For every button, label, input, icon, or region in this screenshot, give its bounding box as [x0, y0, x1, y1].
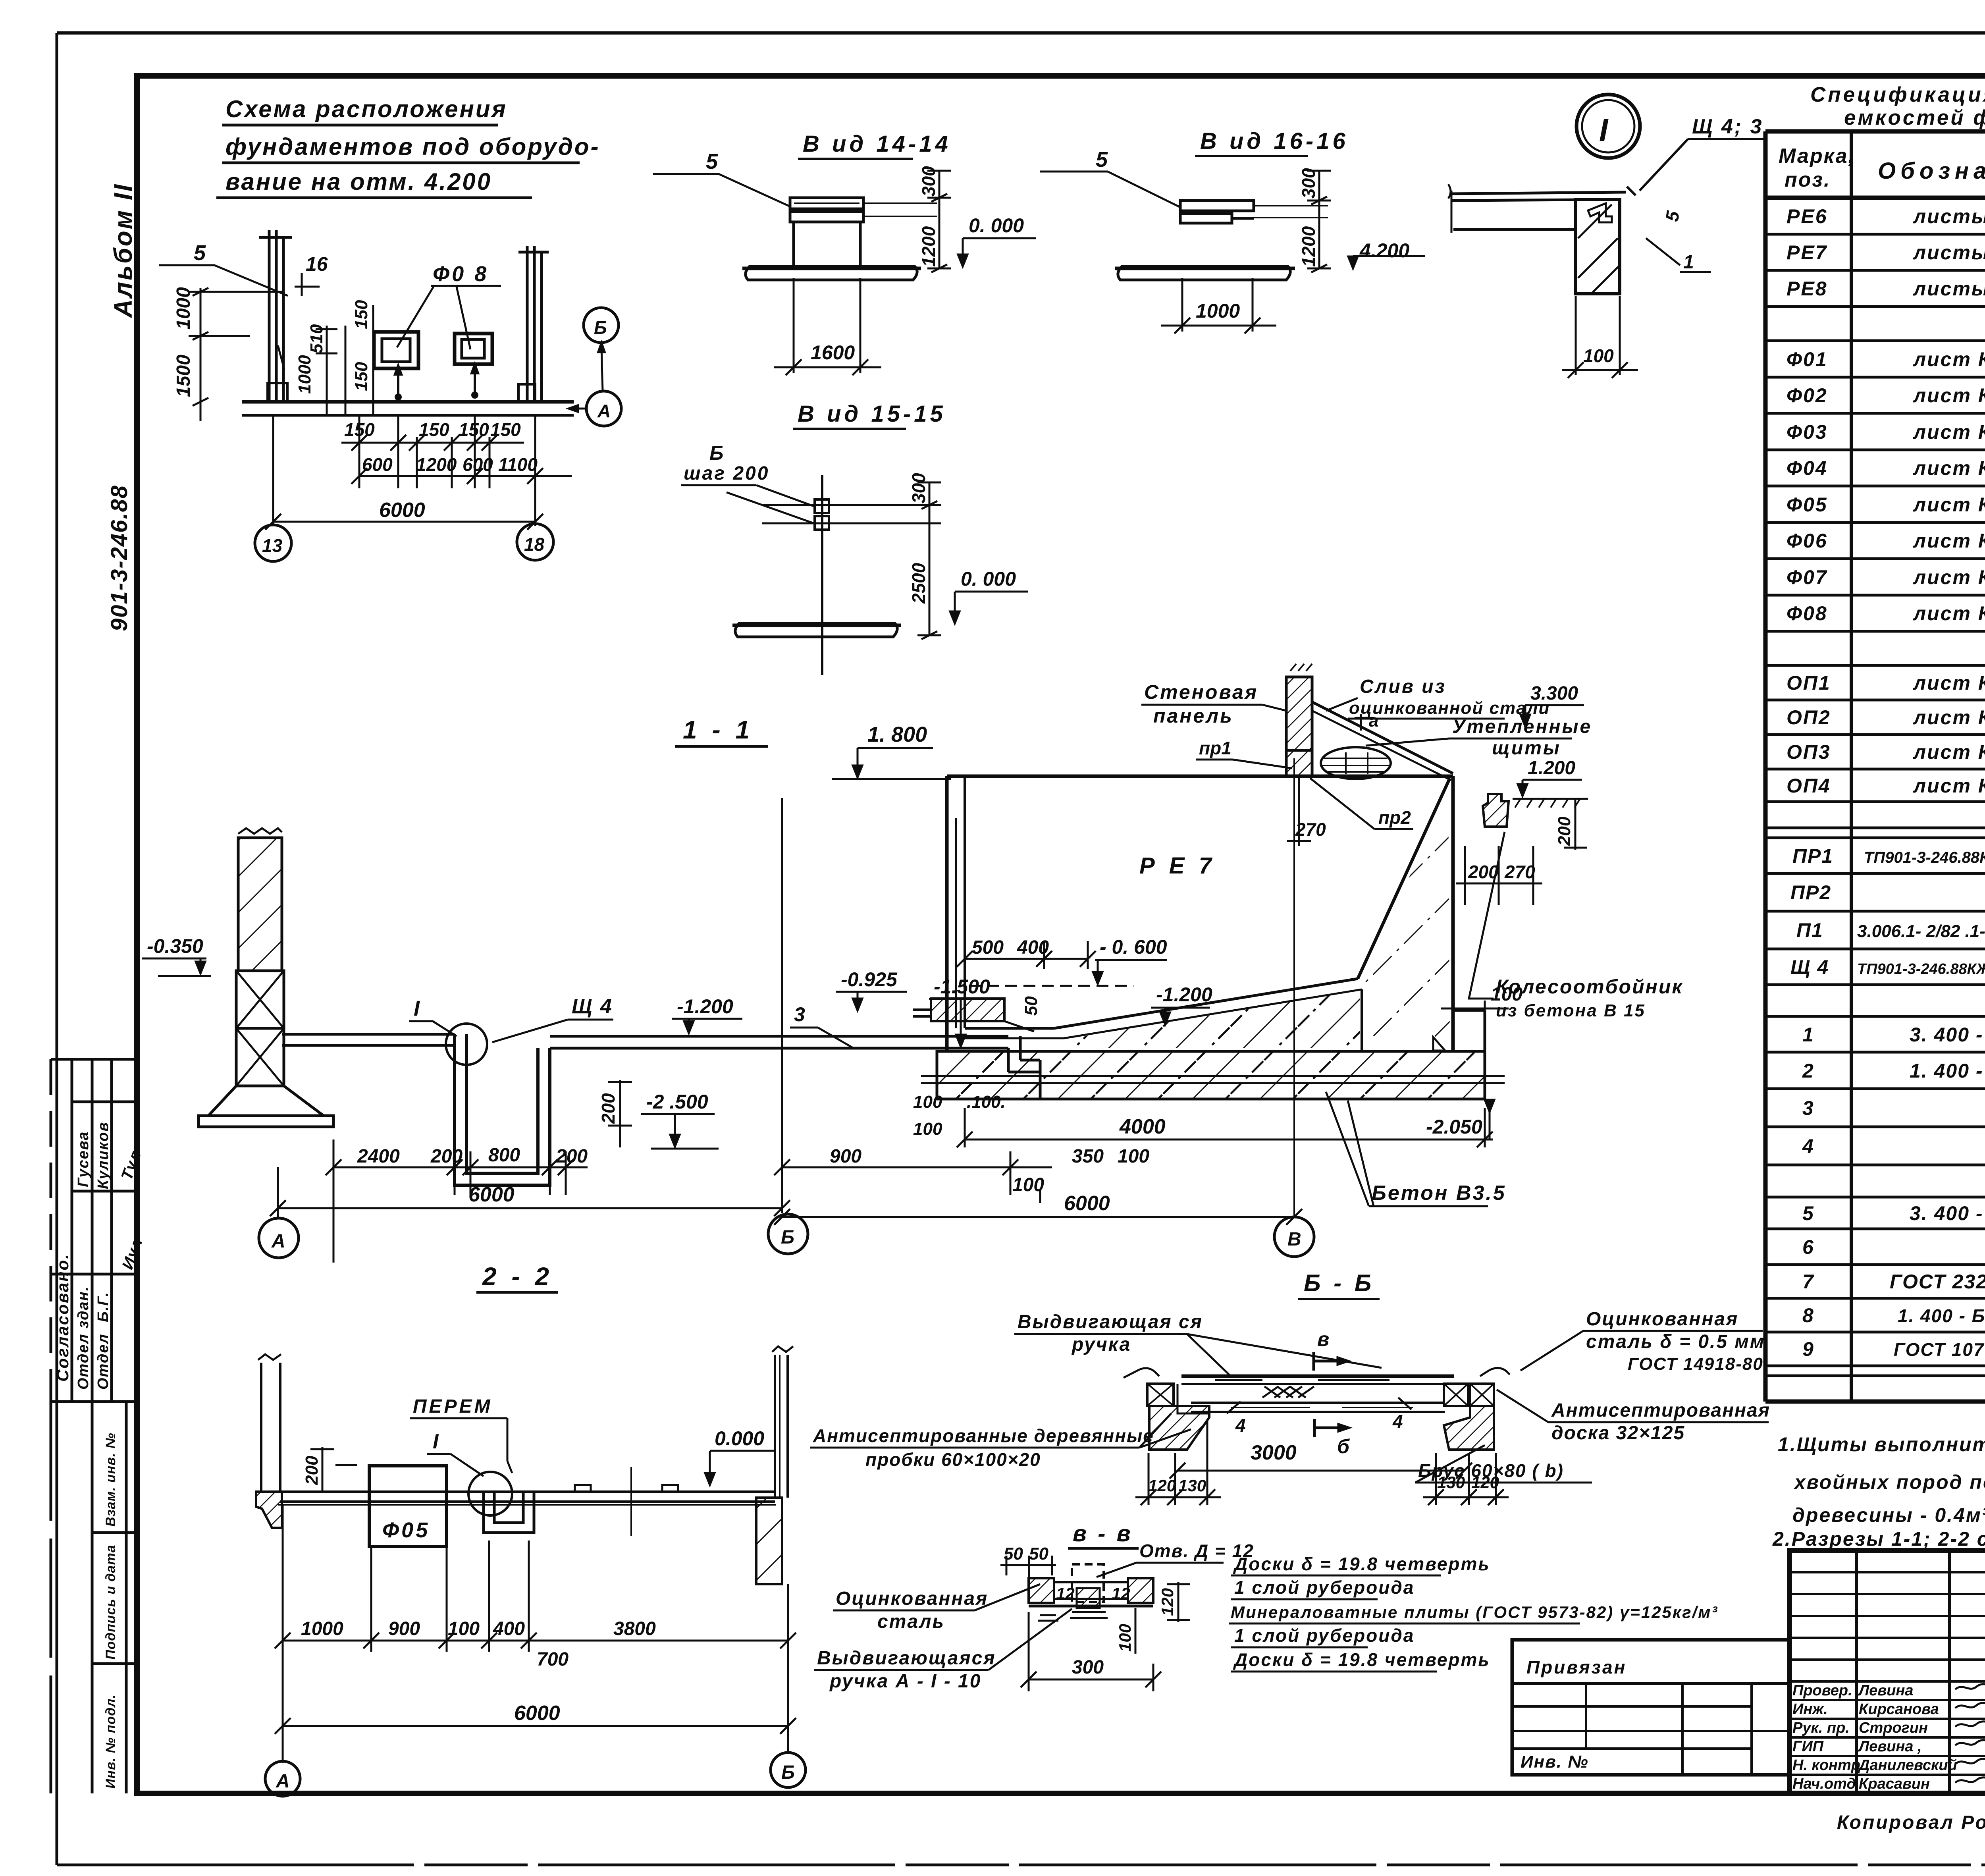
section 2-2 left column: [256, 1354, 282, 1528]
svg-text:6000: 6000: [379, 499, 425, 522]
svg-text:5: 5: [194, 241, 206, 265]
svg-text:ПР2: ПР2: [1790, 881, 1831, 904]
svg-text:Оцинкованная: Оцинкованная: [836, 1588, 988, 1609]
title block grid: [1790, 1550, 1985, 1793]
svg-text:В: В: [1287, 1229, 1301, 1250]
svg-text:б: б: [1337, 1435, 1350, 1458]
plan title: [225, 96, 600, 195]
view B-B left support: [1124, 1368, 1209, 1450]
svg-text:5: 5: [1096, 148, 1108, 172]
left vertical dim 1000 1500: [189, 288, 284, 421]
svg-text:В ид 15-15: В ид 15-15: [798, 401, 946, 427]
svg-text:400: 400: [1017, 937, 1049, 958]
svg-text:ГОСТ 23279-85: ГОСТ 23279-85: [1890, 1271, 1985, 1293]
specification table rows: [1786, 205, 1985, 797]
svg-text:100: 100: [1116, 1624, 1134, 1652]
svg-text:В ид 14-14: В ид 14-14: [803, 131, 951, 157]
specification table header: [1779, 144, 1985, 195]
svg-text:12: 12: [1056, 1584, 1075, 1603]
svg-text:Спецификация к схеме распол: Спецификация к схеме расположения канало…: [1810, 83, 1985, 106]
svg-text:пробки 60×100×20: пробки 60×100×20: [865, 1449, 1041, 1470]
svg-text:- 0. 600: - 0. 600: [1100, 936, 1167, 958]
svg-text:Ф03: Ф03: [1786, 421, 1828, 443]
foundation F05: [369, 1466, 447, 1546]
lean concrete under slope: [1064, 991, 1360, 1048]
dim 6000 B-V: [774, 1209, 1302, 1225]
svg-text:200: 200: [430, 1146, 463, 1167]
svg-text:Оцинкованная: Оцинкованная: [1586, 1309, 1738, 1330]
svg-text:листы КЖ 6: листы КЖ 6: [1913, 278, 1985, 300]
svg-text:Красавин: Красавин: [1859, 1776, 1930, 1792]
svg-text:сталь δ = 0.5 мм: сталь δ = 0.5 мм: [1586, 1331, 1765, 1352]
svg-text:I: I: [414, 997, 420, 1020]
svg-text:ручка: ручка: [1071, 1334, 1131, 1355]
svg-text:I: I: [433, 1430, 439, 1453]
view B-B dim 3000: [1170, 1463, 1472, 1479]
svg-text:ОП3: ОП3: [1786, 741, 1831, 763]
svg-text:100: 100: [448, 1618, 480, 1639]
svg-text:8: 8: [1802, 1304, 1814, 1327]
svg-text:0. 000: 0. 000: [969, 214, 1024, 237]
view 15-15 floor: [732, 623, 901, 637]
svg-text:листы КЖ 7.8: листы КЖ 7.8: [1913, 205, 1985, 228]
svg-text:6000: 6000: [514, 1702, 560, 1725]
svg-text:ручка А - I - 10: ручка А - I - 10: [829, 1671, 981, 1692]
svg-text:ОП2: ОП2: [1786, 706, 1831, 729]
svg-text:пр2: пр2: [1378, 807, 1411, 828]
svg-text:Марка,: Марка,: [1779, 145, 1855, 168]
svg-text:листы КЖ 7.8: листы КЖ 7.8: [1913, 241, 1985, 264]
svg-text:Ф01: Ф01: [1786, 348, 1828, 370]
svg-text:Схема расположения: Схема расположения: [225, 96, 507, 122]
svg-text:1: 1: [1683, 252, 1694, 273]
svg-text:6000: 6000: [1064, 1192, 1110, 1215]
ground line with hatches: [1513, 799, 1588, 808]
svg-text:Взам. инв. №: Взам. инв. №: [103, 1433, 118, 1527]
svg-text:Доски δ = 19.8 четверть: Доски δ = 19.8 четверть: [1233, 1649, 1490, 1670]
view 14-14 bottom dim 1600: [774, 278, 881, 375]
svg-text:700: 700: [537, 1649, 569, 1670]
svg-text:1.200: 1.200: [1528, 758, 1575, 779]
svg-text:1500: 1500: [173, 355, 194, 397]
dims 2-2 row1: [275, 1505, 796, 1763]
svg-text:.100.: .100.: [967, 1092, 1006, 1112]
svg-text:Отдел: Отдел: [95, 1333, 112, 1390]
svg-text:1: 1: [1802, 1024, 1814, 1046]
axis B dash line: [781, 798, 783, 1213]
svg-text:6: 6: [1802, 1236, 1814, 1258]
svg-text:Инж.: Инж.: [1792, 1701, 1828, 1718]
svg-text:поз.: поз.: [1785, 168, 1831, 191]
top wall panel assembly: [1286, 664, 1453, 780]
insulation ellipse: [1321, 747, 1391, 779]
svg-text:лист КЖ 6: лист КЖ 6: [1913, 602, 1985, 625]
svg-text:Инв. №: Инв. №: [1521, 1752, 1589, 1772]
svg-text:3: 3: [794, 1003, 805, 1026]
detail circle on trench: [446, 1024, 487, 1065]
detail circle trench 2-2: [468, 1472, 512, 1515]
svg-text:Минераловатные плиты (ГОСТ 95: Минераловатные плиты (ГОСТ 9573-82) γ=12…: [1231, 1603, 1718, 1621]
foundation F08 box 1: [374, 332, 418, 368]
svg-text:1. 400 - Б/76 вып.1: 1. 400 - Б/76 вып.1: [1898, 1305, 1985, 1326]
svg-text:-1.500: -1.500: [934, 976, 990, 998]
axis circles 2-2: [265, 1753, 806, 1796]
svg-text:200: 200: [302, 1456, 322, 1485]
svg-text:ГИП: ГИП: [1792, 1738, 1824, 1755]
svg-text:100: 100: [913, 1092, 942, 1112]
svg-text:130: 130: [1178, 1476, 1206, 1495]
view 16-16 floor: [1115, 266, 1295, 280]
svg-text:350: 350: [1072, 1146, 1104, 1167]
svg-text:лист КЖ 6: лист КЖ 6: [1913, 421, 1985, 443]
svg-text:Ф02: Ф02: [1786, 384, 1828, 407]
svg-text:Бетон В3.5: Бетон В3.5: [1372, 1182, 1506, 1205]
svg-text:Альбом II: Альбом II: [109, 183, 137, 318]
svg-text:Н. контр: Н. контр: [1792, 1757, 1860, 1774]
svg-text:50: 50: [1029, 1544, 1048, 1564]
view B-B right support: [1444, 1368, 1510, 1450]
svg-text:5: 5: [706, 150, 718, 174]
svg-text:Данилевский: Данилевский: [1858, 1757, 1957, 1774]
svg-text:Ф07: Ф07: [1786, 566, 1828, 588]
svg-text:-0.925: -0.925: [841, 968, 898, 991]
svg-text:лист КЖ 6: лист КЖ 6: [1913, 706, 1985, 729]
svg-text:Гусева: Гусева: [75, 1131, 92, 1187]
dim 6000 2-2: [275, 1718, 796, 1734]
svg-text:лист КЖ 6: лист КЖ 6: [1913, 741, 1985, 763]
axis circles B and A right: [570, 308, 621, 426]
svg-text:1200: 1200: [918, 226, 939, 267]
kolesootboynik block: [1483, 794, 1509, 827]
floor B-V band: [550, 1036, 1040, 1099]
specification table grid: [1765, 131, 1985, 1402]
svg-text:Выдвигающаяся: Выдвигающаяся: [817, 1648, 996, 1669]
svg-text:Рук. пр.: Рук. пр.: [1792, 1720, 1850, 1736]
svg-text:Строгин: Строгин: [1859, 1720, 1928, 1736]
svg-text:5: 5: [1802, 1202, 1814, 1224]
svg-text:Колесоотбойник: Колесоотбойник: [1496, 976, 1683, 998]
svg-text:1000: 1000: [1196, 300, 1240, 322]
view 15-15 squares: [762, 475, 927, 675]
view 16-16 bottom dim 1000: [1161, 278, 1276, 334]
svg-text:Б: Б: [781, 1762, 795, 1783]
svg-text:Привязан: Привязан: [1526, 1657, 1627, 1677]
svg-text:Куликов: Куликов: [95, 1122, 112, 1189]
foundation slab: [921, 1051, 1505, 1099]
notes text: [1772, 1433, 1985, 1550]
tank RE7 walls: [947, 776, 1485, 1051]
svg-text:ТП901-3-246.88КЖИ 73.0.0.0-03: ТП901-3-246.88КЖИ 73.0.0.0-03: [1857, 961, 1985, 978]
svg-text:Щ 4: Щ 4: [572, 995, 613, 1018]
svg-text:901-3-246.88: 901-3-246.88: [106, 485, 132, 631]
bottom dim row 1: [326, 1139, 588, 1263]
svg-text:100: 100: [1118, 1146, 1149, 1167]
svg-text:7: 7: [1802, 1271, 1814, 1293]
svg-text:в: в: [1317, 1328, 1329, 1350]
svg-text:ОП4: ОП4: [1786, 775, 1831, 797]
svg-text:пр1: пр1: [1199, 738, 1231, 758]
svg-text:Слив из: Слив из: [1360, 676, 1446, 697]
svg-text:А: А: [271, 1231, 285, 1252]
plan bottom axis circles 13 18: [255, 524, 553, 561]
svg-text:лист КЖ 6: лист КЖ 6: [1913, 457, 1985, 479]
plan lower dim rows: [265, 415, 572, 530]
svg-text:ПЕРЕМ: ПЕРЕМ: [413, 1396, 493, 1417]
svg-text:50: 50: [1021, 996, 1041, 1016]
view 14-14 right dims: [927, 171, 951, 272]
svg-text:Ф0 8: Ф0 8: [433, 262, 489, 286]
svg-text:900: 900: [830, 1146, 861, 1167]
section 1-1 floor A-B: [282, 1034, 455, 1045]
svg-text:РЕ8: РЕ8: [1786, 278, 1828, 300]
svg-text:1. 800: 1. 800: [867, 723, 927, 746]
svg-text:1000: 1000: [173, 287, 194, 330]
svg-text:100: 100: [1012, 1174, 1044, 1195]
svg-text:Б - Б: Б - Б: [1304, 1270, 1374, 1296]
svg-text:3000: 3000: [1251, 1441, 1297, 1464]
svg-text:900: 900: [388, 1618, 420, 1639]
svg-text:лист КЖ 6: лист КЖ 6: [1913, 566, 1985, 588]
svg-text:1200: 1200: [416, 454, 457, 475]
view B-B dims 120 130: [1135, 1421, 1509, 1505]
view V-V layered list: [1231, 1554, 1718, 1670]
svg-text:доска 32×125: доска 32×125: [1551, 1423, 1685, 1444]
svg-text:хвойных пород по ГОСТ 848: хвойных пород по ГОСТ 8486-86Е , ГОСТ 24…: [1793, 1471, 1985, 1493]
svg-text:РЕ6: РЕ6: [1786, 205, 1828, 228]
svg-text:300: 300: [1072, 1657, 1104, 1678]
plan wall left column: [259, 230, 292, 402]
svg-text:вание на отм. 4.200: вание на отм. 4.200: [225, 168, 492, 195]
svg-text:Обозначение: Обозначение: [1878, 158, 1985, 184]
svg-text:ПР1: ПР1: [1792, 845, 1833, 867]
svg-text:1.Щиты выполнить из ан: 1.Щиты выполнить из антисептированной др…: [1778, 1433, 1985, 1456]
svg-text:150: 150: [352, 300, 371, 329]
svg-text:1 слой рубероида: 1 слой рубероида: [1234, 1625, 1415, 1646]
view 15-15 dims: [917, 482, 941, 639]
svg-text:1. 400 - Б/76: 1. 400 - Б/76: [1910, 1060, 1985, 1082]
svg-text:200: 200: [555, 1146, 588, 1167]
svg-text:Провер.: Провер.: [1792, 1682, 1852, 1699]
tank wedge concrete hatched: [1361, 790, 1450, 1050]
view B-B cover panel: [1181, 1376, 1454, 1412]
svg-text:Выдвигающая ся: Выдвигающая ся: [1018, 1311, 1203, 1332]
svg-text:300: 300: [908, 473, 929, 503]
svg-text:Инв. № подл.: Инв. № подл.: [103, 1694, 118, 1789]
view V-V dim 300: [1021, 1612, 1161, 1691]
view B-B mesh: [1262, 1386, 1314, 1398]
dims 500 400: [957, 941, 1096, 969]
svg-text:лист КЖ 6: лист КЖ 6: [1913, 530, 1985, 552]
svg-text:4: 4: [1235, 1415, 1246, 1436]
svg-text:Ф04: Ф04: [1786, 457, 1828, 479]
svg-text:Ф06: Ф06: [1786, 530, 1828, 552]
svg-text:Антисептированные деревянные: Антисептированные деревянные: [813, 1425, 1154, 1446]
svg-text:лист КЖ 6: лист КЖ 6: [1913, 775, 1985, 797]
svg-text:лист КЖ 6: лист КЖ 6: [1913, 494, 1985, 516]
svg-text:1000: 1000: [295, 355, 314, 394]
left stamp strip grid: [51, 1059, 137, 1793]
svg-text:сталь: сталь: [877, 1611, 945, 1632]
svg-text:12: 12: [1112, 1584, 1130, 1603]
svg-text:4: 4: [1802, 1135, 1814, 1157]
svg-text:2500: 2500: [908, 563, 929, 604]
svg-text:120: 120: [1148, 1476, 1176, 1495]
pipe stub: [913, 999, 1034, 1032]
svg-text:лист КЖ 6: лист КЖ 6: [1913, 348, 1985, 370]
svg-text:Левина: Левина: [1858, 1682, 1914, 1699]
svg-text:3.006.1- 2/82 .1-2-1.0-094: 3.006.1- 2/82 .1-2-1.0-094: [1857, 922, 1985, 941]
svg-text:Антисептированная: Антисептированная: [1551, 1400, 1770, 1421]
svg-text:Б: Б: [781, 1227, 794, 1248]
svg-text:ТП901-3-246.88КЖИ 56.0.0.0: ТП901-3-246.88КЖИ 56.0.0.0: [1864, 849, 1985, 866]
svg-text:3.300: 3.300: [1530, 683, 1578, 704]
specification table lower rows: [1790, 845, 1985, 1360]
svg-text:800: 800: [488, 1145, 520, 1166]
svg-text:Б: Б: [594, 317, 607, 338]
svg-text:2: 2: [1802, 1060, 1814, 1082]
privyazan table: [1512, 1640, 1790, 1775]
svg-text:Нач.отд: Нач.отд: [1792, 1776, 1856, 1792]
svg-text:Ф05: Ф05: [382, 1518, 430, 1542]
svg-text:Щ 4; 3: Щ 4; 3: [1692, 115, 1763, 138]
svg-text:А: А: [597, 401, 611, 421]
bottom dim row 2 (B area): [774, 1151, 1052, 1203]
view 16-16 right dims: [1307, 171, 1331, 272]
svg-text:В ид 16-16: В ид 16-16: [1200, 128, 1349, 154]
svg-text:шаг 200: шаг 200: [684, 463, 769, 484]
detail I z-profile: [1588, 203, 1612, 222]
svg-text:3: 3: [1802, 1097, 1814, 1119]
svg-text:Доски δ = 19.8 четверть: Доски δ = 19.8 четверть: [1233, 1554, 1490, 1574]
detail I circle: [1576, 94, 1640, 158]
svg-text:400: 400: [493, 1618, 525, 1639]
left stamp strip labels: [53, 1122, 146, 1789]
svg-text:150: 150: [352, 362, 371, 391]
svg-text:200: 200: [1555, 816, 1574, 846]
svg-text:панель: панель: [1153, 705, 1233, 727]
signatures squiggles: [1955, 1684, 1985, 1783]
svg-text:-1.200: -1.200: [1156, 983, 1212, 1006]
section 2-2 floor: [278, 1467, 776, 1536]
svg-text:1 - 1: 1 - 1: [683, 715, 754, 744]
svg-text:Стеновая: Стеновая: [1144, 681, 1258, 703]
svg-text:Ф05: Ф05: [1786, 494, 1828, 516]
svg-text:18: 18: [524, 534, 545, 555]
svg-text:3800: 3800: [613, 1618, 656, 1639]
plan base line: [242, 402, 574, 415]
svg-text:150: 150: [419, 419, 449, 440]
svg-text:120: 120: [1158, 1588, 1177, 1616]
svg-text:100: 100: [1583, 345, 1614, 366]
axis circles A B V: [259, 1214, 1314, 1258]
svg-text:а: а: [1369, 711, 1378, 731]
svg-text:Утепленные: Утепленные: [1452, 716, 1592, 737]
right wall 2-2: [756, 1346, 793, 1584]
foundation F08 box 2: [455, 334, 492, 364]
svg-text:РЕ7: РЕ7: [1786, 241, 1828, 264]
svg-text:0. 000: 0. 000: [961, 568, 1016, 590]
svg-text:I: I: [1599, 112, 1609, 148]
svg-text:ГОСТ 14918-80: ГОСТ 14918-80: [1628, 1354, 1763, 1374]
svg-text:150: 150: [459, 419, 489, 440]
svg-text:Копировал Родлевская: Копировал Родлевская: [1837, 1812, 1985, 1833]
svg-text:1000: 1000: [301, 1618, 343, 1639]
view 16-16 plates: [1180, 201, 1328, 223]
svg-text:1600: 1600: [811, 341, 855, 364]
svg-text:2400: 2400: [357, 1146, 400, 1167]
svg-text:Кирсанова: Кирсанова: [1859, 1701, 1939, 1718]
svg-text:4.200: 4.200: [1359, 239, 1409, 262]
svg-text:6000: 6000: [468, 1183, 515, 1206]
svg-text:16: 16: [306, 253, 328, 275]
svg-text:4000: 4000: [1119, 1115, 1166, 1138]
detail I slab: [1448, 184, 1636, 233]
svg-text:Отдел здан.: Отдел здан.: [75, 1286, 92, 1390]
svg-text:150: 150: [490, 419, 521, 440]
svg-text:Щ 4: Щ 4: [1790, 956, 1829, 978]
dim 6000 A-B: [270, 1167, 790, 1217]
dim 4000 and -2.050: [957, 1108, 1493, 1147]
svg-text:Р Е 7: Р Е 7: [1139, 853, 1216, 879]
svg-text:-1.200: -1.200: [677, 995, 733, 1018]
svg-text:лист КЖ 6: лист КЖ 6: [1913, 672, 1985, 694]
svg-text:П1: П1: [1796, 919, 1823, 941]
trench U 2-2: [484, 1492, 534, 1533]
svg-text:ОП1: ОП1: [1786, 672, 1831, 694]
detail I wall hatched: [1576, 200, 1620, 294]
svg-text:Б.Г.: Б.Г.: [95, 1292, 112, 1322]
svg-text:1100: 1100: [498, 454, 538, 475]
svg-text:Б: Б: [709, 442, 723, 464]
svg-text:1200: 1200: [1298, 226, 1319, 267]
svg-text:100: 100: [1491, 984, 1522, 1005]
svg-text:емкостей фундаментов под об: емкостей фундаментов под оборудование: [1844, 106, 1985, 129]
detail I dim 100: [1562, 296, 1638, 378]
svg-text:лист КЖ 6: лист КЖ 6: [1913, 384, 1985, 407]
svg-text:фундаментов под оборудо-: фундаментов под оборудо-: [225, 133, 600, 160]
svg-text:270: 270: [1504, 862, 1535, 882]
svg-text:Согласовано.: Согласовано.: [53, 1253, 72, 1382]
svg-text:щиты: щиты: [1492, 738, 1561, 759]
plan wall right column: [518, 246, 549, 402]
svg-text:600: 600: [362, 454, 393, 475]
svg-text:13: 13: [262, 535, 283, 556]
section 1-1 column A: [198, 828, 333, 1127]
svg-text:3. 400 - Б/76: 3. 400 - Б/76: [1910, 1024, 1985, 1046]
view 14-14 plates: [790, 198, 937, 266]
svg-text:-2 .500: -2 .500: [646, 1091, 708, 1113]
svg-text:в - в: в - в: [1073, 1521, 1133, 1546]
view V-V body: [1029, 1564, 1153, 1621]
svg-text:200: 200: [598, 1093, 619, 1124]
svg-text:Брус 60×80 ( b): Брус 60×80 ( b): [1418, 1460, 1564, 1481]
svg-text:1 слой рубероида: 1 слой рубероида: [1234, 1577, 1415, 1598]
svg-text:Левина ,: Левина ,: [1858, 1738, 1922, 1755]
view 14-14 floor: [742, 266, 921, 280]
svg-text:100: 100: [913, 1119, 942, 1139]
svg-text:Ф08: Ф08: [1786, 602, 1828, 625]
trench U channel: [455, 1034, 550, 1185]
svg-text:500: 500: [972, 937, 1004, 958]
svg-text:2 - 2: 2 - 2: [482, 1262, 553, 1291]
svg-text:9: 9: [1802, 1338, 1814, 1360]
tank interior bottom and slope: [965, 778, 1450, 1051]
title block names column: [1792, 1682, 1957, 1792]
arrows inside plan: [395, 364, 478, 399]
svg-text:3. 400 - Б / 76: 3. 400 - Б / 76: [1910, 1202, 1985, 1224]
svg-text:древесины - 0.4м³, расход м: древесины - 0.4м³, расход минеральной ва…: [1792, 1504, 1985, 1526]
svg-text:600: 600: [463, 454, 493, 475]
